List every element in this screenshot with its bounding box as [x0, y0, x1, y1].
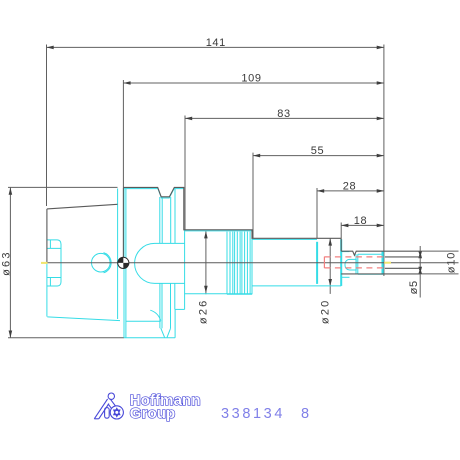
extension line 18 — [340, 223, 342, 239]
bottom groove shelf line — [126, 320, 161, 322]
tool tip dia5 bottom — [385, 267, 420, 269]
flange groove edge 2 — [161, 197, 163, 243]
flange groove edge 1 — [159, 197, 161, 243]
tool tip dia5 top — [385, 256, 420, 258]
extension line 55 — [252, 153, 254, 239]
gear star — [113, 407, 121, 417]
shank back face upper — [46, 209, 48, 263]
arrow 109 left — [123, 81, 130, 85]
right arm inner — [108, 404, 113, 410]
dia26 bottom edge — [185, 293, 253, 295]
bottom flange V leg left — [161, 328, 165, 337]
drive slot upper — [47, 240, 61, 249]
arrow 55 left — [253, 154, 260, 158]
arrow 28 right — [377, 189, 384, 193]
svg-text:18: 18 — [354, 215, 367, 227]
shank side hole circle — [92, 253, 111, 272]
capsule boss — [135, 243, 185, 283]
collet face line 1 — [355, 254, 357, 274]
flange groove edge 4 — [174, 189, 176, 244]
flange bottom step horizontal — [175, 308, 185, 310]
svg-text:28: 28 — [343, 180, 356, 192]
flange groove edge 3 — [170, 197, 172, 243]
drive slot lower — [47, 278, 61, 287]
dia26 left face — [184, 230, 186, 310]
flange groove edge 3 lower — [170, 282, 172, 328]
svg-text:55: 55 — [311, 145, 324, 157]
collet slot rounded box — [345, 259, 356, 270]
dia20 front face dark overlay — [340, 238, 342, 251]
dia10 extension overshoot top — [420, 250, 458, 252]
arrow 83 left — [185, 117, 192, 121]
dia10 dimension line — [419, 246, 421, 298]
taper bottom line — [47, 317, 120, 321]
flange face line 1 — [123, 189, 125, 338]
shank side hole outer arc — [104, 253, 112, 273]
shank back face lower half — [46, 263, 48, 317]
svg-text:ø5: ø5 — [408, 280, 420, 294]
flange bottom step vertical — [174, 309, 176, 337]
flange bottom edge — [124, 337, 175, 339]
flange groove edge 1 lower — [159, 282, 161, 328]
gear ring — [110, 406, 123, 419]
arrow dia26 bottom — [204, 286, 208, 293]
arrow 141 left — [47, 46, 54, 50]
cap bottom line — [358, 273, 384, 275]
tool bottom — [341, 273, 420, 275]
arrow dia63 bottom — [9, 331, 13, 338]
bottom sail arc — [150, 310, 161, 321]
taper top line — [47, 204, 118, 209]
drive slot lower inner line — [49, 278, 51, 287]
dim line 141 — [47, 46, 384, 48]
extension line 109 overlay through flange — [122, 188, 124, 257]
dim line 109 — [123, 82, 384, 84]
arrow 141 right — [377, 46, 384, 50]
extension line 28 — [316, 188, 318, 238]
extension line 83 — [184, 116, 186, 230]
flange top edge cyan — [124, 189, 185, 198]
svg-text:338134: 338134 — [221, 406, 285, 422]
svg-text:83: 83 — [277, 108, 290, 120]
arrow 18 right — [377, 224, 384, 228]
arrow dia26 top — [204, 231, 208, 238]
arrow dia20 bottom — [328, 279, 332, 286]
arrow 83 right — [377, 117, 384, 121]
dim line 28 — [317, 190, 384, 192]
tool top with notch — [341, 251, 420, 255]
flange groove edge 4 lower — [174, 282, 176, 309]
flange groove edge 2 lower — [161, 282, 163, 328]
leg base — [94, 418, 99, 420]
left leg outer — [94, 399, 107, 419]
dim line 55 — [253, 155, 384, 157]
arrow dia5 top — [418, 251, 422, 257]
dia20 top cyan fringe — [252, 238, 317, 240]
arrow dia10 top — [418, 251, 422, 258]
red dashed bottom — [324, 267, 383, 269]
center axis — [47, 262, 459, 264]
slot connecting edge — [60, 244, 62, 282]
right arm outer — [110, 399, 117, 409]
arrow dia63 top — [9, 188, 13, 195]
dia10 extension overshoot bottom — [420, 273, 458, 275]
arrow dia10 bottom — [418, 267, 422, 274]
extension line 109 / flange face — [122, 80, 124, 263]
bottom flange V leg right — [167, 328, 171, 337]
left leg inner — [99, 404, 109, 419]
body capsule — [105, 408, 110, 419]
svg-text:Group: Group — [130, 405, 176, 422]
dia63 dimension line — [9, 188, 11, 338]
svg-text:141: 141 — [206, 37, 226, 49]
arrow 18 left — [341, 224, 348, 228]
nut nose edge line — [316, 242, 318, 284]
yellow dash left — [41, 262, 48, 264]
dia63 top extension line — [8, 186, 118, 188]
red bracket vertical — [323, 257, 325, 269]
collet face line 2 — [357, 254, 359, 274]
svg-text:8: 8 — [301, 406, 309, 422]
extension line left end 141 — [46, 45, 48, 207]
ribs bottom cap line — [227, 293, 252, 295]
collet nut ribs — [226, 232, 228, 295]
flange left edge — [117, 189, 119, 320]
arrow dia20 top — [328, 238, 332, 245]
logo text — [130, 392, 201, 422]
dia26 dimension line — [205, 231, 207, 294]
arrow 109 right — [377, 81, 384, 85]
article number 338134 8 — [221, 406, 309, 422]
svg-text:ø20: ø20 — [319, 299, 331, 325]
drive slot upper inner line — [49, 240, 51, 249]
dia20 dimension line — [329, 238, 331, 294]
dia20 front face — [340, 239, 342, 286]
yellow dash right — [384, 262, 391, 264]
red dashed top — [324, 256, 383, 258]
arrow 28 left — [317, 189, 324, 193]
cap top line — [358, 253, 384, 255]
svg-text:ø63: ø63 — [0, 250, 12, 276]
collet rear stub top — [342, 251, 350, 253]
chuck front face — [382, 251, 384, 274]
flange top with V groove — [123, 187, 341, 238]
flange face line 2 — [125, 189, 127, 338]
dim line 83 — [185, 117, 384, 119]
dim line 18 — [341, 224, 384, 226]
arrow 55 right — [377, 154, 384, 158]
svg-text:109: 109 — [241, 72, 261, 84]
dia20 bottom edge — [252, 285, 341, 287]
collet rear stub bottom — [342, 276, 350, 278]
svg-text:ø26: ø26 — [198, 299, 210, 325]
arrow dia5 bottom — [418, 268, 422, 274]
dia26 top cyan fringe — [185, 230, 252, 232]
extension line right (tool tip plane) — [383, 45, 385, 277]
dia63 bottom extension line — [8, 337, 124, 339]
head circle — [108, 393, 114, 399]
